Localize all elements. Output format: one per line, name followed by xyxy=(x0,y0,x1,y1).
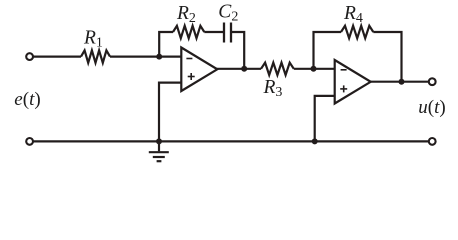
wire: U2 output to output terminal xyxy=(370,81,429,83)
resistor R1 xyxy=(81,50,110,62)
resistor R4 xyxy=(341,26,373,38)
node E: ground junction on rail xyxy=(156,138,162,144)
svg-text:R2: R2 xyxy=(176,3,196,26)
U1 minus sign xyxy=(186,58,192,60)
wire: R1 to op-amp U1 inverting input xyxy=(110,55,181,57)
svg-text:R3: R3 xyxy=(263,77,283,100)
ground xyxy=(149,141,169,161)
resistor R3 xyxy=(261,63,294,75)
U2 plus sign xyxy=(340,85,347,92)
svg-text:R1: R1 xyxy=(83,28,103,51)
op-amp U1 xyxy=(181,48,217,92)
wire: R4 to U2 output node xyxy=(373,32,401,82)
wire: U1 output to R3 xyxy=(217,68,262,70)
op-amp U2 xyxy=(335,60,371,104)
node D: U2 output junction xyxy=(399,79,405,85)
node B: U1 output junction xyxy=(241,66,247,72)
node A: junction at U1 inverting input xyxy=(156,54,162,60)
U2 minus sign xyxy=(341,69,347,71)
node F: U2 non-inverting junction on rail xyxy=(312,138,318,144)
bottom-right terminal xyxy=(429,138,436,145)
svg-text:C2: C2 xyxy=(218,1,238,24)
wire: node C up to R4 feedback branch xyxy=(314,32,342,69)
wire: C2 to U1 output node xyxy=(232,32,244,69)
resistor R2 xyxy=(173,26,204,38)
wire: node A up to feedback branch xyxy=(159,32,173,57)
svg-text:u(t): u(t) xyxy=(418,97,445,118)
output terminal (right) xyxy=(429,78,436,85)
wire: U1 non-inverting input to ground rail xyxy=(159,83,181,142)
bottom ground rail wire xyxy=(34,140,429,142)
wire: input terminal to R1 xyxy=(34,55,82,57)
wire: R3 to op-amp U2 inverting input xyxy=(294,68,335,70)
capacitor C2 xyxy=(224,23,231,43)
bottom-left terminal xyxy=(26,138,33,145)
U1 plus sign xyxy=(188,73,195,80)
svg-text:R4: R4 xyxy=(343,3,363,26)
node C: junction at U2 inverting input xyxy=(311,66,317,72)
svg-text:e(t): e(t) xyxy=(14,89,40,110)
wire: R2 to C2 xyxy=(204,31,223,33)
wire: U2 non-inverting input to ground rail xyxy=(315,96,335,141)
input terminal (top-left) xyxy=(26,53,33,60)
